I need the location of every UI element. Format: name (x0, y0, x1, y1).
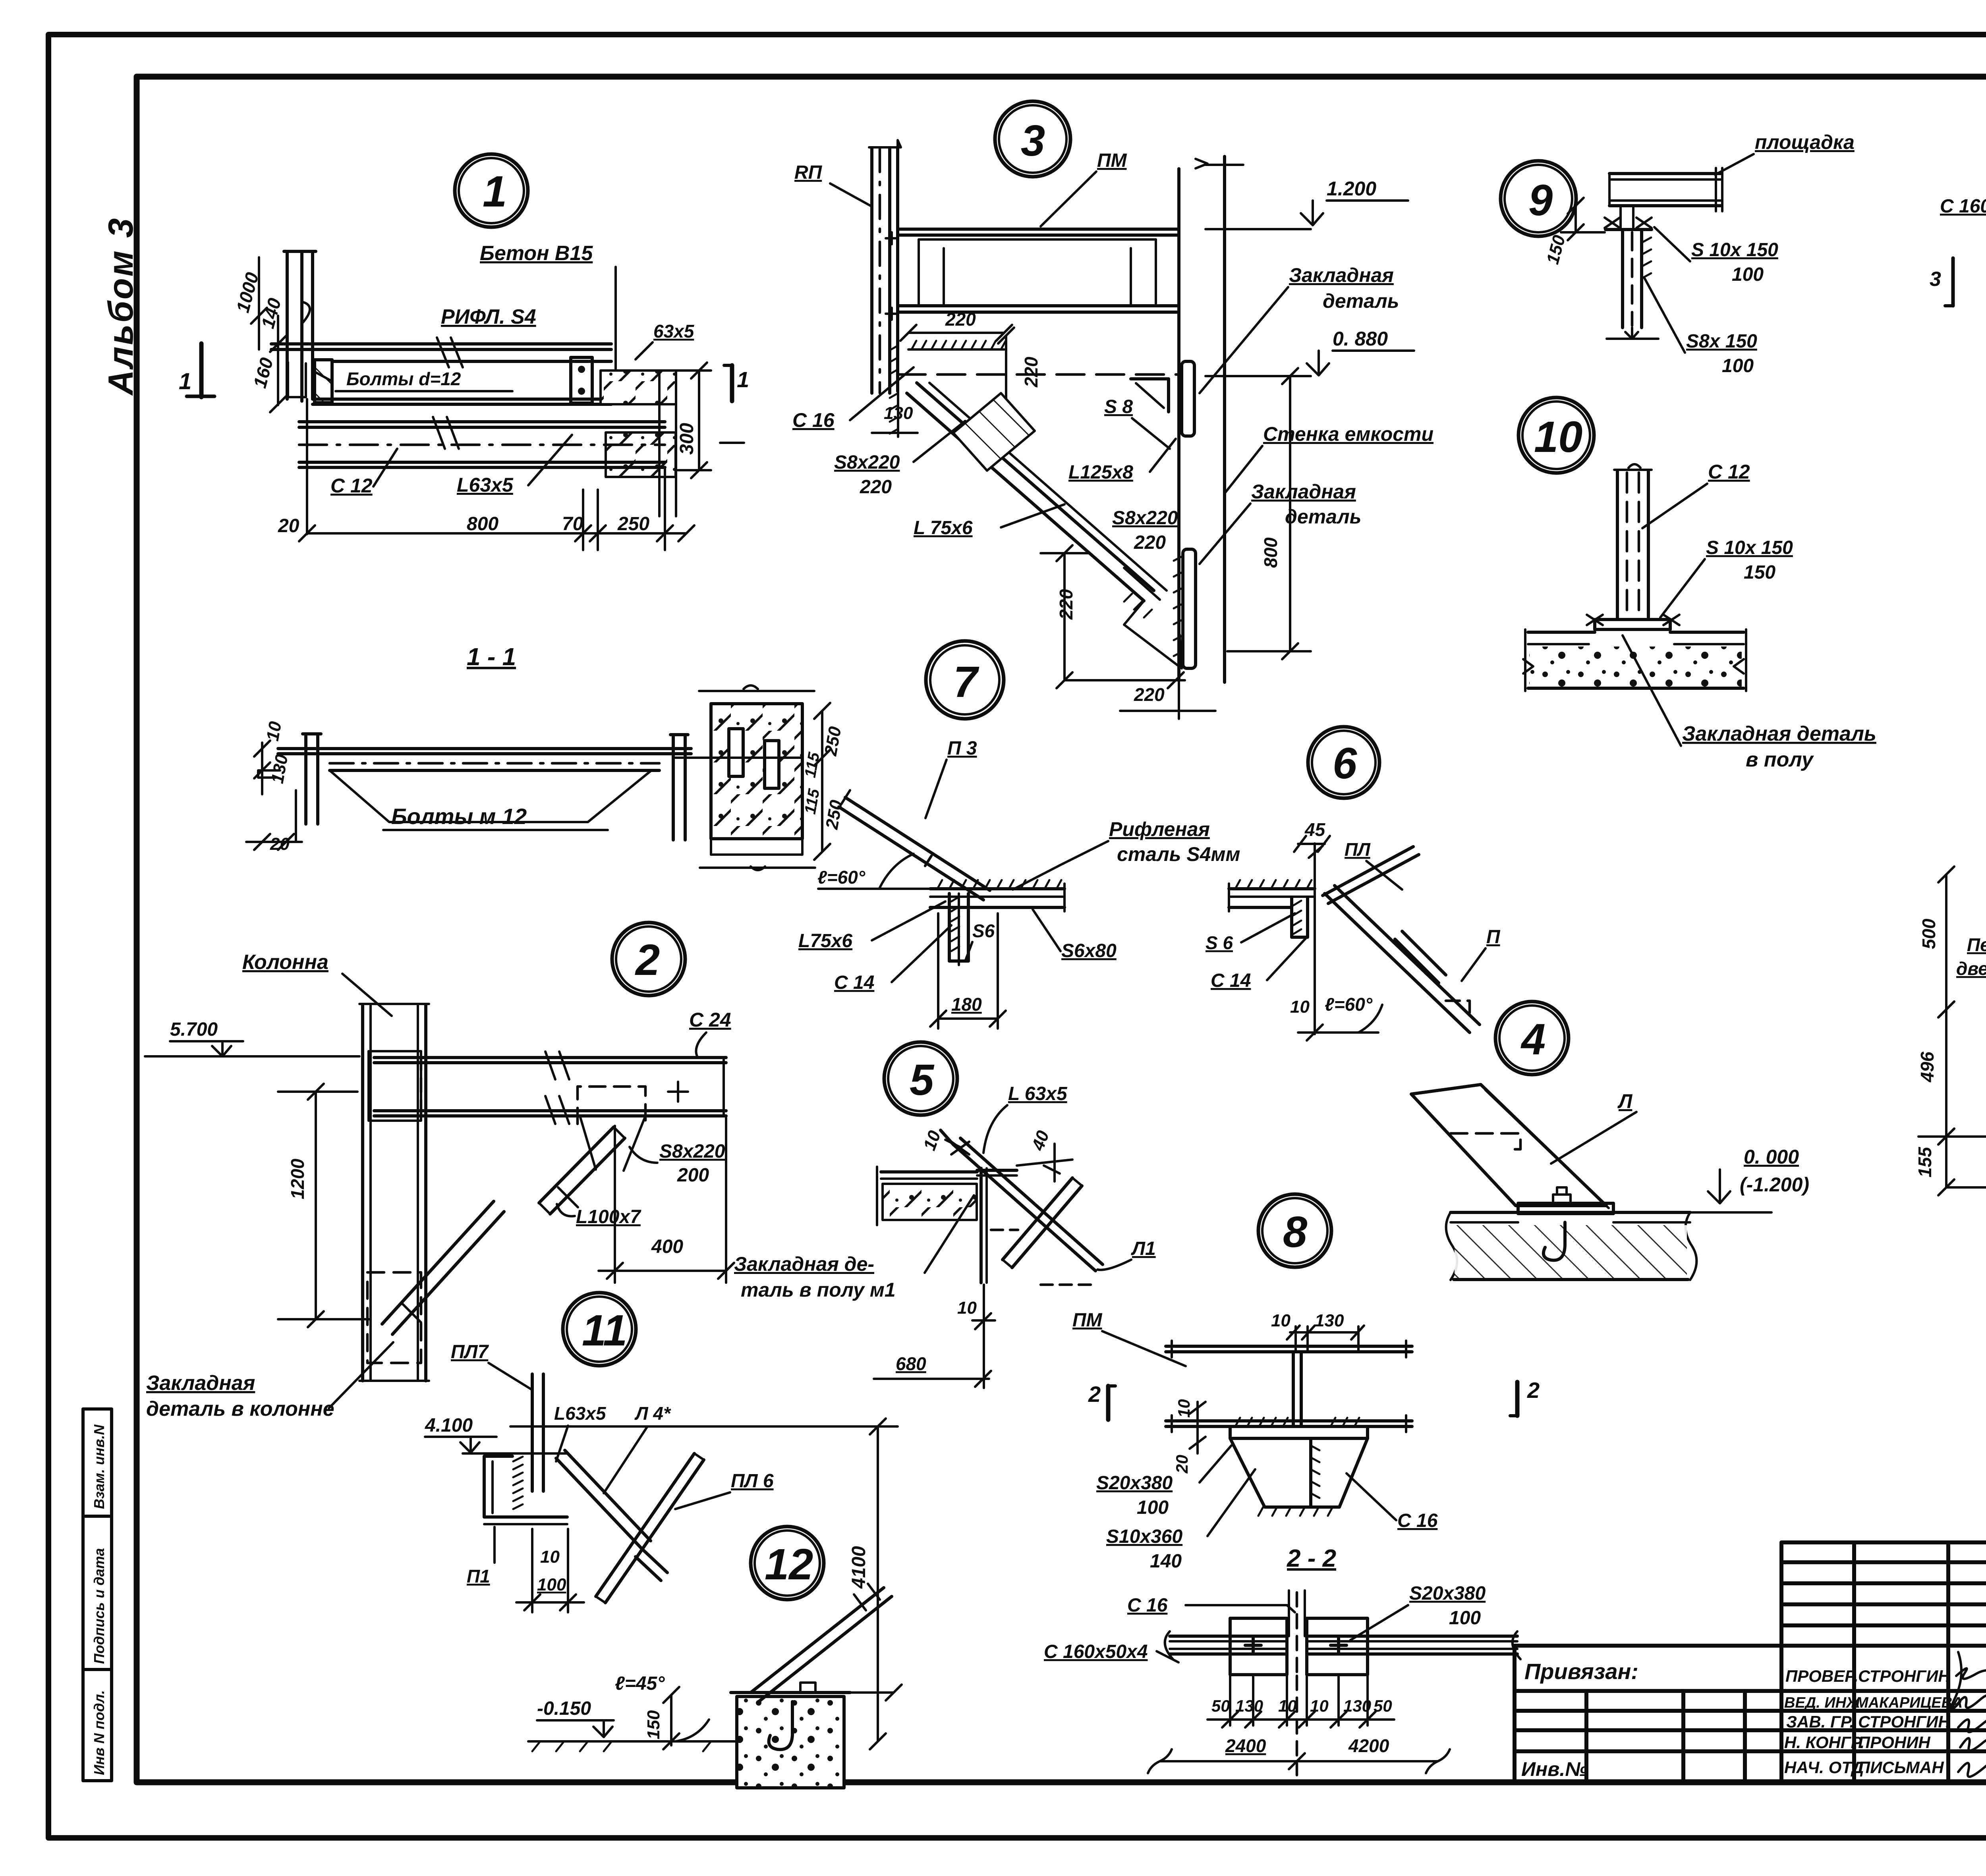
svg-text:100: 100 (1137, 1497, 1169, 1518)
svg-text:ЗАВ. ГР.: ЗАВ. ГР. (1786, 1712, 1854, 1731)
svg-text:ВЕД. ИНЖ: ВЕД. ИНЖ (1784, 1695, 1861, 1711)
step cross bar (1003, 1178, 1072, 1260)
gusset under beam (580, 1116, 645, 1171)
svg-text:45: 45 (1304, 819, 1326, 840)
svg-text:RП: RП (794, 162, 823, 183)
svg-text:S10х360: S10х360 (1106, 1526, 1182, 1547)
vertical thin line (1314, 843, 1316, 1034)
svg-text:L100х7: L100х7 (576, 1206, 641, 1228)
right bolt bracket (571, 357, 592, 403)
node: detail circle 3 (995, 101, 1070, 177)
svg-text:Л1: Л1 (1131, 1238, 1156, 1259)
bearing plate (1230, 1426, 1368, 1438)
node: detail circle 2 (612, 923, 685, 996)
svg-text:S 10х 150: S 10х 150 (1706, 537, 1793, 558)
svg-text:Петли: Петли (1967, 934, 1986, 955)
svg-text:7: 7 (953, 658, 979, 706)
svg-text:Л 4*: Л 4* (634, 1403, 671, 1424)
diagonal lower end welds (1124, 568, 1160, 600)
diagonals X (565, 1450, 651, 1541)
svg-text:S8х220: S8х220 (659, 1141, 725, 1162)
svg-text:L 75х6: L 75х6 (914, 517, 973, 538)
corner angle piece vertical (979, 1168, 983, 1283)
svg-text:5.700: 5.700 (170, 1019, 218, 1040)
trapezoid with text (330, 770, 651, 822)
svg-text:496: 496 (1917, 1052, 1938, 1083)
vertical plate (531, 1374, 534, 1491)
svg-text:С 160х50х4: С 160х50х4 (1940, 196, 1986, 217)
svg-text:S20х380: S20х380 (1096, 1473, 1173, 1494)
channel bars (1170, 1635, 1287, 1638)
diagonal lower brace (382, 1201, 494, 1324)
svg-text:100: 100 (1449, 1608, 1481, 1629)
svg-text:Закладная: Закладная (1289, 264, 1394, 286)
svg-text:ПРОНИН: ПРОНИН (1858, 1733, 1931, 1752)
svg-text:П: П (1486, 926, 1501, 948)
svg-text:ℓ=45°: ℓ=45° (615, 1673, 665, 1694)
embedded strip with weld ticks (908, 348, 1004, 351)
top rails (1166, 1345, 1412, 1348)
svg-text:20: 20 (1173, 1455, 1191, 1474)
node: detail circle 10 (1518, 398, 1594, 473)
svg-text:Л: Л (1617, 1090, 1633, 1112)
svg-text:S8х220: S8х220 (1112, 508, 1178, 529)
post channel left (286, 252, 289, 399)
svg-text:115: 115 (802, 751, 823, 779)
signatures (1951, 1652, 1986, 1777)
svg-text:2: 2 (1088, 1382, 1101, 1407)
svg-text:сталь S4мм: сталь S4мм (1117, 843, 1240, 865)
svg-text:С 16: С 16 (792, 409, 835, 431)
svg-text:4: 4 (1520, 1015, 1546, 1064)
svg-text:1200: 1200 (287, 1158, 308, 1199)
svg-text:0. 880: 0. 880 (1333, 328, 1388, 350)
left bolt bracket (315, 360, 332, 403)
svg-text:130: 130 (884, 403, 913, 423)
svg-text:Закладная: Закладная (1251, 481, 1356, 503)
beam channel C24 (374, 1056, 726, 1059)
lower channel C12 (299, 420, 665, 423)
svg-text:Рифленая: Рифленая (1109, 818, 1210, 840)
svg-text:С 12: С 12 (1708, 461, 1750, 483)
svg-text:Привязан:: Привязан: (1524, 1659, 1638, 1684)
svg-text:Бетон В15: Бетон В15 (480, 242, 593, 265)
node: detail circle 1 (455, 154, 528, 227)
svg-text:70: 70 (562, 513, 583, 535)
ground line with hatch (528, 1740, 739, 1743)
bolts through block (729, 729, 743, 776)
svg-text:130: 130 (268, 753, 292, 785)
svg-text:П1: П1 (467, 1566, 490, 1586)
svg-text:Инв.№: Инв.№ (1521, 1758, 1588, 1780)
beam top flange (271, 342, 611, 345)
svg-text:220: 220 (945, 309, 976, 330)
svg-text:12: 12 (765, 1540, 813, 1589)
svg-text:S8х 150: S8х 150 (1686, 331, 1757, 352)
svg-text:800: 800 (467, 513, 498, 535)
svg-text:8: 8 (1283, 1208, 1308, 1256)
svg-text:10: 10 (1271, 1311, 1291, 1330)
riffled plate horizontal (930, 887, 1064, 890)
svg-text:Закладная де-: Закладная де- (734, 1253, 874, 1275)
right wall verticals (1177, 169, 1180, 680)
svg-text:2: 2 (1527, 1378, 1540, 1403)
svg-text:150: 150 (1543, 233, 1569, 266)
svg-text:140: 140 (1150, 1551, 1182, 1572)
svg-text:ПЛ 6: ПЛ 6 (731, 1471, 774, 1492)
svg-text:S6: S6 (972, 921, 995, 941)
svg-text:Колонна: Колонна (242, 951, 328, 974)
svg-text:МАКАРИЦЕВА: МАКАРИЦЕВА (1856, 1695, 1963, 1711)
svg-text:180: 180 (951, 994, 982, 1015)
plates (1230, 1618, 1287, 1675)
svg-text:Стенка емкости: Стенка емкости (1263, 423, 1433, 445)
svg-text:500: 500 (1918, 919, 1939, 949)
svg-text:S8х220: S8х220 (834, 452, 900, 473)
svg-text:ПРОВЕР.: ПРОВЕР. (1785, 1667, 1858, 1685)
dashed box (367, 1272, 421, 1363)
svg-text:деталь: деталь (1323, 290, 1399, 312)
svg-text:3: 3 (1930, 268, 1941, 291)
node: detail circle 6 (1308, 727, 1379, 798)
svg-text:1.200: 1.200 (1327, 178, 1376, 200)
diagonal channel (845, 797, 990, 890)
svg-text:Подпись и дата: Подпись и дата (91, 1548, 107, 1664)
center post (1292, 1352, 1295, 1426)
plus marks (1245, 1644, 1261, 1647)
ladder stringers (1323, 847, 1413, 896)
svg-text:100: 100 (1732, 264, 1764, 285)
svg-text:ПМ: ПМ (1072, 1310, 1103, 1331)
channel section (484, 1456, 512, 1517)
concrete block with hook (737, 1697, 844, 1788)
svg-text:400: 400 (651, 1236, 683, 1257)
svg-text:50: 50 (1211, 1697, 1230, 1715)
floor slab (1451, 1211, 1690, 1214)
svg-text:250: 250 (821, 725, 845, 757)
concrete right (601, 371, 676, 404)
svg-text:11: 11 (582, 1306, 627, 1355)
svg-text:ПЛ7: ПЛ7 (451, 1341, 489, 1363)
diagonal member (917, 383, 1154, 591)
inclined plate (1411, 1085, 1606, 1206)
svg-text:С 14: С 14 (834, 972, 874, 993)
svg-text:Инв N подл.: Инв N подл. (91, 1690, 107, 1775)
svg-text:10: 10 (540, 1547, 560, 1567)
svg-text:ℓ=60°: ℓ=60° (1325, 994, 1373, 1015)
post under platform (1619, 206, 1622, 229)
svg-text:площадка: площадка (1755, 131, 1855, 153)
svg-text:2: 2 (635, 936, 660, 984)
svg-text:СТРОНГИН: СТРОНГИН (1858, 1712, 1951, 1731)
svg-text:ℓ=60°: ℓ=60° (817, 867, 865, 888)
svg-text:S 10х 150: S 10х 150 (1691, 239, 1778, 261)
svg-text:Взам. инв.N: Взам. инв.N (91, 1424, 107, 1509)
svg-text:220: 220 (1134, 532, 1166, 553)
svg-text:1: 1 (179, 369, 191, 394)
svg-text:С 16: С 16 (1127, 1595, 1168, 1616)
post C12 (1616, 471, 1619, 620)
svg-text:3: 3 (1021, 116, 1045, 165)
svg-text:S 8: S 8 (1104, 396, 1133, 417)
svg-text:НАЧ. ОТД: НАЧ. ОТД (1784, 1758, 1864, 1777)
svg-text:100: 100 (1722, 355, 1754, 376)
svg-text:800: 800 (1260, 537, 1281, 568)
svg-text:L125х8: L125х8 (1068, 462, 1133, 483)
svg-text:9: 9 (1528, 176, 1553, 225)
svg-text:100: 100 (537, 1575, 566, 1594)
svg-text:2400: 2400 (1225, 1735, 1266, 1756)
beam break marks (437, 338, 449, 367)
svg-text:130: 130 (1315, 1311, 1344, 1330)
svg-text:155: 155 (1915, 1146, 1935, 1177)
svg-text:ПЛ: ПЛ (1345, 839, 1371, 860)
diagonal brace (539, 1127, 614, 1203)
svg-text:4.100: 4.100 (425, 1415, 473, 1436)
svg-text:20: 20 (278, 515, 299, 537)
dashed embed in beam (578, 1087, 645, 1124)
svg-text:40: 40 (1028, 1128, 1053, 1153)
floor slab (881, 1170, 977, 1173)
svg-text:(-1.200): (-1.200) (1740, 1173, 1809, 1196)
svg-text:220: 220 (1134, 684, 1165, 705)
node: detail circle 11 (563, 1293, 636, 1366)
svg-text:в полу: в полу (1746, 748, 1814, 771)
svg-text:ПИСЬМАН: ПИСЬМАН (1858, 1758, 1944, 1777)
gusset plate at column (369, 1051, 421, 1121)
svg-text:-0.150: -0.150 (537, 1698, 591, 1719)
svg-text:С 12: С 12 (330, 475, 373, 497)
svg-text:63х5: 63х5 (653, 321, 695, 342)
base plate (1595, 620, 1670, 629)
bolt on block (800, 1683, 815, 1693)
svg-text:Болты d=12: Болты d=12 (346, 369, 461, 389)
svg-text:160: 160 (249, 355, 277, 390)
dims bottom: 20 800 70 250 (307, 532, 686, 535)
beam bottom (313, 398, 611, 401)
section mark 1 left (199, 344, 204, 397)
channel below (1621, 230, 1624, 328)
svg-text:150: 150 (644, 1710, 663, 1739)
svg-text:220: 220 (1021, 357, 1041, 388)
node: detail circle 7 (926, 641, 1004, 719)
svg-text:дверные: дверные (1956, 958, 1986, 979)
svg-text:С 16: С 16 (1397, 1510, 1438, 1531)
node: detail circle 4 (1495, 1002, 1569, 1075)
column (361, 1005, 364, 1381)
center channel above (1288, 1590, 1290, 1636)
svg-text:0. 000: 0. 000 (1744, 1146, 1799, 1168)
bottom rails (1166, 1419, 1412, 1422)
svg-text:Болты м 12: Болты м 12 (391, 804, 527, 829)
platform beam (1609, 172, 1721, 175)
small channel hatched (1292, 897, 1308, 937)
floor (1528, 631, 1595, 634)
svg-text:6: 6 (1333, 739, 1357, 788)
right posts (672, 735, 675, 840)
svg-text:150: 150 (1744, 562, 1775, 583)
svg-text:300: 300 (676, 423, 697, 455)
left bracket (304, 735, 307, 824)
walkway beam (898, 228, 1179, 231)
svg-text:С 14: С 14 (1211, 970, 1251, 991)
svg-text:5: 5 (910, 1056, 935, 1104)
svg-text:10: 10 (1290, 997, 1310, 1017)
svg-text:4200: 4200 (1348, 1735, 1389, 1756)
svg-text:ПМ: ПМ (1097, 150, 1127, 171)
svg-text:130: 130 (1343, 1697, 1371, 1715)
svg-text:1: 1 (483, 167, 507, 216)
embedded plate upper (1182, 361, 1194, 436)
svg-text:10: 10 (957, 1298, 977, 1318)
svg-text:200: 200 (677, 1165, 709, 1186)
hatched plate on diagonal (953, 393, 1035, 471)
concrete block (711, 704, 802, 839)
diagonal bar 45deg (751, 1588, 884, 1693)
svg-text:Закладная: Закладная (146, 1372, 255, 1395)
trapezoid gusset (1230, 1438, 1368, 1507)
svg-text:Закладная деталь: Закладная деталь (1682, 722, 1876, 745)
weld x at corner (951, 1142, 969, 1154)
svg-text:Альбом 3: Альбом 3 (101, 217, 140, 396)
svg-text:2 - 2: 2 - 2 (1287, 1545, 1336, 1572)
svg-text:деталь в колонне: деталь в колонне (146, 1397, 334, 1421)
base plate and bolt (1518, 1203, 1613, 1214)
svg-text:деталь: деталь (1285, 506, 1361, 528)
svg-text:1 - 1: 1 - 1 (467, 643, 516, 671)
svg-text:220: 220 (860, 477, 892, 498)
ladder stringer diagonal (953, 1145, 1095, 1271)
embedded plate lower (1183, 549, 1196, 668)
dims bottom (1229, 1676, 1231, 1725)
svg-text:4100: 4100 (848, 1546, 869, 1589)
node: detail circle 5 (884, 1042, 957, 1115)
svg-text:20: 20 (270, 834, 290, 854)
svg-text:S20х380: S20х380 (1409, 1583, 1486, 1604)
node: detail circle 12 (751, 1527, 824, 1600)
svg-text:С 160х50х4: С 160х50х4 (1044, 1641, 1148, 1662)
svg-text:таль в полу м1: таль в полу м1 (741, 1279, 896, 1301)
svg-text:115: 115 (802, 787, 823, 815)
svg-text:680: 680 (896, 1353, 926, 1374)
svg-text:РИФЛ. S4: РИФЛ. S4 (441, 305, 536, 328)
left margin stamp column (83, 1409, 112, 1781)
svg-text:С 24: С 24 (689, 1009, 731, 1031)
left vertical channel (870, 148, 873, 393)
svg-text:L 63х5: L 63х5 (1008, 1083, 1068, 1104)
svg-text:L63х5: L63х5 (457, 474, 514, 496)
vertical channel C14 (949, 894, 968, 961)
svg-text:220: 220 (1056, 589, 1076, 620)
section mark 1 right (730, 365, 734, 401)
node: detail circle 9 (1501, 161, 1576, 236)
svg-text:Н. КОНГР.: Н. КОНГР. (1784, 1733, 1864, 1752)
svg-text:П 3: П 3 (947, 738, 977, 759)
top plate (278, 747, 691, 750)
svg-text:1: 1 (737, 367, 749, 392)
svg-text:10: 10 (1534, 413, 1582, 461)
riffled plate (1229, 887, 1315, 890)
svg-text:L75х6: L75х6 (798, 930, 852, 952)
svg-text:10: 10 (263, 720, 286, 743)
svg-text:L63х5: L63х5 (554, 1403, 607, 1424)
node: detail circle 8 (1258, 1194, 1331, 1267)
svg-text:СТРОНГИН: СТРОНГИН (1858, 1667, 1951, 1685)
svg-text:10: 10 (1175, 1399, 1193, 1418)
svg-text:250: 250 (617, 513, 649, 535)
svg-text:S 6: S 6 (1206, 932, 1233, 953)
right angle bracket (1131, 379, 1169, 412)
svg-text:S6х80: S6х80 (1061, 940, 1117, 961)
